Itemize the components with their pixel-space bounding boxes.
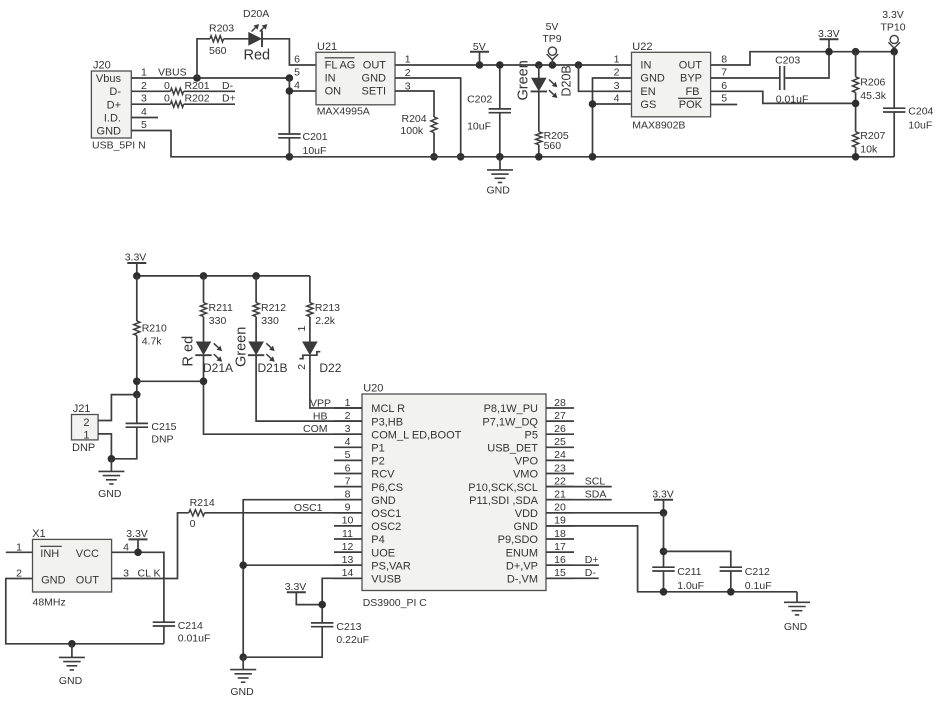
capacitor C204 [883,106,934,132]
svg-text:P10,SCK,SCL: P10,SCK,SCL [468,482,538,494]
node EN branch junction [575,61,583,69]
svg-text:C213: C213 [336,621,361,633]
svg-text:3.3V: 3.3V [125,252,147,264]
resistor R212 [253,302,286,327]
svg-text:SDA: SDA [585,488,607,500]
resistor R206 [853,77,887,103]
svg-text:D22: D22 [319,361,341,375]
svg-text:P11,SDI ,SDA: P11,SDI ,SDA [469,495,539,507]
wire 3.3V to LED rail [136,263,138,276]
svg-text:VDD: VDD [515,508,538,520]
ground symbol right [784,592,810,633]
node rail R210 [133,272,141,280]
wire U22 FB to divider [711,91,856,103]
svg-text:10uF: 10uF [303,145,327,157]
U20 left pin names [371,403,461,585]
svg-text:18: 18 [554,528,566,540]
svg-text:10uF: 10uF [908,120,932,132]
wire LED common horizontal [137,380,204,382]
svg-text:GND: GND [230,686,254,698]
wire J21.2 to R210 net [98,395,137,421]
wire C214 to ground rail [163,626,165,644]
svg-text:19: 19 [554,515,566,527]
wire J20.4 stub [131,117,158,119]
svg-text:7: 7 [345,475,351,487]
svg-text:P4: P4 [371,534,384,546]
node 3.3V rail junction [825,48,833,56]
connector J21 [72,403,99,440]
X1 pin 2 number [16,567,22,579]
svg-text:2: 2 [405,67,411,79]
node VBUS junction at R203 branch [193,74,201,82]
wire R210 to LED common [136,335,138,394]
wire R202 to net D+ [184,103,235,105]
svg-text:1: 1 [405,54,411,66]
svg-text:ENUM: ENUM [506,547,538,559]
net label D- [585,567,597,579]
svg-text:0.22uF: 0.22uF [336,634,369,646]
svg-text:1: 1 [16,542,22,554]
wire D20B to R205 [538,91,540,131]
wire R204 to ground rail [433,133,435,157]
U22 pin 6 number [721,80,727,92]
wire D22 to VPP [310,355,362,408]
svg-text:4: 4 [345,436,351,448]
U22 pin 4 number [614,93,620,105]
D21B reference [258,361,288,375]
U21 pin 1 number [405,54,411,66]
svg-text:R207: R207 [860,130,885,142]
svg-text:GND: GND [514,521,539,533]
node PS,VAR junction [239,561,247,569]
X1 pin name GND [41,575,66,587]
J20 pin 5 number [141,119,147,131]
svg-text:6: 6 [345,462,351,474]
node R206 top junction [852,48,860,56]
svg-text:21: 21 [554,489,566,501]
svg-text:1: 1 [83,430,89,442]
U22 value MAX8902B [632,120,685,132]
svg-text:VCC: VCC [76,548,99,560]
svg-text:11: 11 [342,528,353,540]
node C202 top junction [496,61,504,69]
svg-text:OUT: OUT [363,59,387,71]
D20B color label Green [516,60,532,100]
U22 pin 3 number [614,80,620,92]
svg-text:P9,SDO: P9,SDO [498,534,539,546]
svg-text:3: 3 [123,567,129,579]
wire rail to R210 [136,276,138,321]
svg-text:330: 330 [209,315,227,327]
U22 pin name BYP [680,73,702,85]
net label VPP [310,397,331,409]
J20 pin 1 number [141,67,147,79]
U22 pin name OUT [679,60,703,72]
svg-text:3.3V: 3.3V [285,581,307,593]
LED D21A [195,342,222,362]
svg-text:27: 27 [554,410,566,422]
resistor R202 [170,93,209,108]
svg-text:1: 1 [345,397,351,409]
svg-text:D21A: D21A [203,361,233,375]
U21 pin name ON [325,86,342,98]
node TP9 junction [549,61,557,69]
wire rail to R212 [255,276,257,303]
svg-text:2: 2 [141,80,147,92]
svg-text:23: 23 [554,462,566,474]
svg-text:25: 25 [554,436,566,448]
X1 pin name VCC [76,548,99,560]
svg-text:P6,CS: P6,CS [371,482,403,494]
svg-text:P5: P5 [525,429,538,441]
U22 pin name GND [640,73,665,85]
wire LED supply rail [137,275,310,277]
svg-text:D21B: D21B [258,361,288,375]
X1 pin 4 number [123,542,129,554]
wire U20 SCL [546,486,612,488]
svg-text:P2: P2 [371,456,384,468]
svg-text:J20: J20 [93,60,111,72]
svg-text:R204: R204 [402,113,427,125]
svg-text:GND: GND [371,495,396,507]
diode D22 schottky [300,342,321,359]
J20 pin labels [96,73,122,138]
wire J20.1 VBUS to U21 IN [131,77,289,79]
svg-text:C214: C214 [178,620,203,632]
resistor R201 value 0 [164,80,170,92]
wire U20 VDD to 3.3V [546,512,664,514]
U22 pin 5 number [721,93,727,105]
svg-text:12: 12 [342,541,354,553]
svg-text:OSC1: OSC1 [371,508,401,520]
node U21 GND rail junction [457,153,465,161]
node C211 ground junction [660,588,668,596]
ground symbol J21 [98,459,124,500]
svg-text:USB_DET: USB_DET [487,443,538,455]
resistor R207 [853,130,886,156]
U20 left pin stubs [334,408,362,578]
node FB divider junction [852,100,860,108]
wire R211 to D21A [203,317,205,342]
wire R212 to D21B [255,317,257,342]
net label COM [303,423,328,435]
node R205 rail junction [535,153,543,161]
svg-text:R211: R211 [209,302,233,314]
svg-text:560: 560 [544,140,562,152]
svg-text:VMO: VMO [513,469,539,481]
node VDD junction [660,509,668,517]
svg-text:1.0uF: 1.0uF [677,580,704,592]
svg-text:FL AG: FL AG [325,59,356,71]
svg-text:5: 5 [345,449,351,461]
svg-text:C204: C204 [908,106,933,118]
node rail R212 [252,272,260,280]
capacitor C202 [467,94,511,133]
svg-text:16: 16 [554,554,566,566]
node rail R211 [200,272,208,280]
wire C211 to C212 top [664,551,731,567]
U20 right pin names [468,403,538,585]
svg-text:MAX8902B: MAX8902B [632,120,685,132]
svg-text:3.3V: 3.3V [126,528,148,540]
wire D20A to U21 FLAG [262,39,316,65]
net label SDA [585,488,607,500]
svg-text:22: 22 [554,475,566,487]
wire R205 to ground rail [538,145,540,157]
U21 pin name GND [362,72,387,84]
U20 right pin stubs [546,408,574,578]
U21 pin 5 number [294,67,300,79]
wire D21B to HB [256,355,362,421]
ground symbol X1 [59,644,85,687]
op-amp U21 MAX4995A body [316,41,395,105]
svg-text:560: 560 [209,45,227,57]
svg-text:1: 1 [614,54,620,66]
svg-text:2: 2 [296,364,308,370]
svg-text:8: 8 [345,489,351,501]
X1 pin name OUT [76,575,100,587]
wire R201 to net D- [184,90,235,92]
wire U20 D+ [546,564,599,566]
U21 pin 6 number [294,54,300,66]
svg-text:IN: IN [640,60,651,72]
svg-text:POK: POK [679,99,703,111]
svg-text:D-,VM: D-,VM [507,574,538,586]
node C212 ground junction [727,588,735,596]
svg-text:15: 15 [554,567,566,579]
U21 pin name IN [325,72,336,84]
svg-text:VPO: VPO [515,456,539,468]
svg-text:DNP: DNP [72,442,95,454]
wire C215 to ground [111,427,136,459]
svg-text:OUT: OUT [679,60,703,72]
svg-text:Green: Green [234,327,250,367]
node R204 rail junction [430,153,438,161]
svg-text:100k: 100k [400,125,424,137]
X1 value 48MHz [33,597,66,609]
svg-text:10uF: 10uF [467,120,491,132]
svg-text:I.D.: I.D. [104,113,121,125]
wire C202 to ground rail [499,113,501,157]
svg-text:DS3900_PI C: DS3900_PI C [363,597,428,609]
U21 pin 3 number [405,80,411,92]
node TP10 junction [890,48,898,56]
svg-text:COM_L ED,BOOT: COM_L ED,BOOT [371,429,461,441]
svg-text:C202: C202 [467,94,492,106]
X1 pin 3 number [123,567,129,579]
svg-text:6: 6 [294,54,300,66]
wire C211 to ground [663,571,665,592]
node C201 ground junction [286,153,294,161]
node R207 rail junction [852,153,860,161]
svg-text:1: 1 [296,326,308,332]
wire VBUS up to R203 [197,39,210,78]
svg-text:VUSB: VUSB [371,574,401,586]
net label VBUS [158,67,187,79]
svg-text:3: 3 [345,423,351,435]
svg-text:GND: GND [362,72,387,84]
net label D+ [222,93,236,105]
svg-text:5V: 5V [546,21,559,33]
svg-text:D+: D+ [107,99,121,111]
resistor R210 [134,321,167,348]
U22 pin name EN [640,86,655,98]
svg-text:P7,1W_DQ: P7,1W_DQ [482,416,538,428]
net label D- [222,80,234,92]
svg-text:2: 2 [16,567,22,579]
net label CLK [138,567,161,579]
svg-text:7: 7 [721,67,727,79]
svg-text:U22: U22 [632,41,652,53]
svg-text:0: 0 [164,80,170,92]
svg-text:8: 8 [721,54,727,66]
svg-text:26: 26 [554,423,566,435]
svg-text:R201: R201 [185,80,210,92]
svg-text:CL K: CL K [138,567,161,579]
svg-text:UOE: UOE [371,547,395,559]
svg-text:1: 1 [141,67,147,79]
wire rail to R213 [309,276,311,303]
svg-text:X1: X1 [32,528,45,540]
svg-text:U20: U20 [363,382,383,394]
svg-text:4.7k: 4.7k [142,336,163,348]
svg-text:R202: R202 [185,93,210,105]
TP9 labels [542,21,561,45]
wire R213 to D22 [309,317,311,342]
wire X1.1 stub [6,551,33,553]
wire U21 SETI to R204 [395,91,434,117]
wire R210 net to C215 [136,395,138,424]
net label OSC1 [294,502,323,514]
svg-text:USB_5PI N: USB_5PI N [92,140,146,152]
svg-text:Vbus: Vbus [96,73,122,85]
svg-text:GND: GND [784,621,808,633]
node X1 VCC junction [134,549,142,557]
capacitor C215 [126,421,177,446]
wire C204 to ground rail [893,112,895,157]
svg-text:3.3V: 3.3V [652,489,674,501]
D21A color label Red [181,336,197,367]
wire J20.5 to ground rail [131,131,289,157]
wire U22 BYP to C203 [711,77,780,79]
resistor R213 [307,302,340,327]
wire R203 to D20A [224,38,249,40]
U21 pin name FLAG [325,58,356,72]
resistor R203 [209,22,234,57]
U21 pin name SETI [362,86,386,98]
LED D20B [531,78,558,98]
ground symbol top rail [487,157,513,197]
svg-text:2: 2 [614,67,620,79]
svg-text:OUT: OUT [76,575,100,587]
wire PS,VAR to GND vertical [243,564,362,566]
U22 pin 8 number [721,54,727,66]
testpoint TP10 [888,35,900,51]
wire U20 GND pin19 to ground [546,526,797,592]
svg-text:4: 4 [294,80,300,92]
svg-text:P3,HB: P3,HB [371,416,403,428]
wire U22 OUT to 3.3V rail [711,52,895,65]
U22 pin name GS [640,99,656,111]
svg-text:OSC2: OSC2 [371,521,401,533]
svg-text:3.3V: 3.3V [818,28,840,40]
wire 3.3V to R206 [855,52,857,77]
svg-text:D-: D- [109,86,121,98]
wire U21 GND down to rail [395,78,461,157]
wire R214 to U20 OSC1 [205,512,362,514]
svg-text:D20A: D20A [243,8,269,20]
node GS junction [589,100,597,108]
wire C213 to ground [243,627,322,658]
svg-text:TP9: TP9 [542,33,561,45]
svg-text:D+,VP: D+,VP [506,560,538,572]
J20 pin 4 number [141,106,147,118]
wire main ground rail [289,156,894,158]
net label HB [313,410,328,422]
U21 value MAX4995A [317,105,370,117]
svg-text:24: 24 [554,449,566,461]
D20A reference [243,8,269,20]
svg-text:EN: EN [640,86,655,98]
node ON junction [286,87,294,95]
resistor R201 [170,80,209,95]
power 3.3V top [818,28,840,52]
J20 pin 2 number [141,80,147,92]
node R210 bottom junction [133,378,141,386]
svg-text:C201: C201 [303,131,328,143]
svg-text:5: 5 [721,93,727,105]
node X1 ground junction [68,640,76,648]
wire 5V rail to C202 [499,65,501,109]
svg-text:9: 9 [345,502,351,514]
resistor R214 [189,497,215,530]
power 3.3V LED rail [125,252,147,264]
svg-text:DNP: DNP [151,434,173,446]
wire U20 VUSB to C213 [322,578,362,623]
svg-text:C212: C212 [745,566,770,578]
svg-text:MCL R: MCL R [371,403,405,415]
wire J21.1 to ground [98,434,111,459]
node D20B top junction [535,61,543,69]
svg-text:4: 4 [141,106,147,118]
svg-text:17: 17 [554,541,566,553]
svg-text:3: 3 [614,80,620,92]
ground symbol center [230,657,256,698]
node C202 ground junction [496,153,504,161]
D21A reference [203,361,233,375]
svg-text:GND: GND [41,575,66,587]
capacitor C201 [278,131,328,157]
svg-text:C215: C215 [151,421,176,433]
svg-text:MAX4995A: MAX4995A [317,105,370,117]
wire X1 OUT to R214 [112,513,189,579]
D20B reference [560,65,574,96]
svg-text:FB: FB [685,86,699,98]
wire U20 D- [546,577,599,579]
node C215 ground junction [108,455,116,463]
U20 right pin numbers [554,397,566,579]
svg-text:INH: INH [40,548,59,560]
LED D21B [248,342,275,362]
svg-text:VBUS: VBUS [158,67,187,79]
node VBUS junction at U21 IN [286,74,294,82]
svg-text:2.2k: 2.2k [315,315,336,327]
power 3.3V VDD [652,489,674,513]
X1 pin name INH [40,546,62,560]
svg-text:R213: R213 [315,302,340,314]
wire C201 to ground rail [288,138,290,157]
node VUSB junction [318,601,326,609]
